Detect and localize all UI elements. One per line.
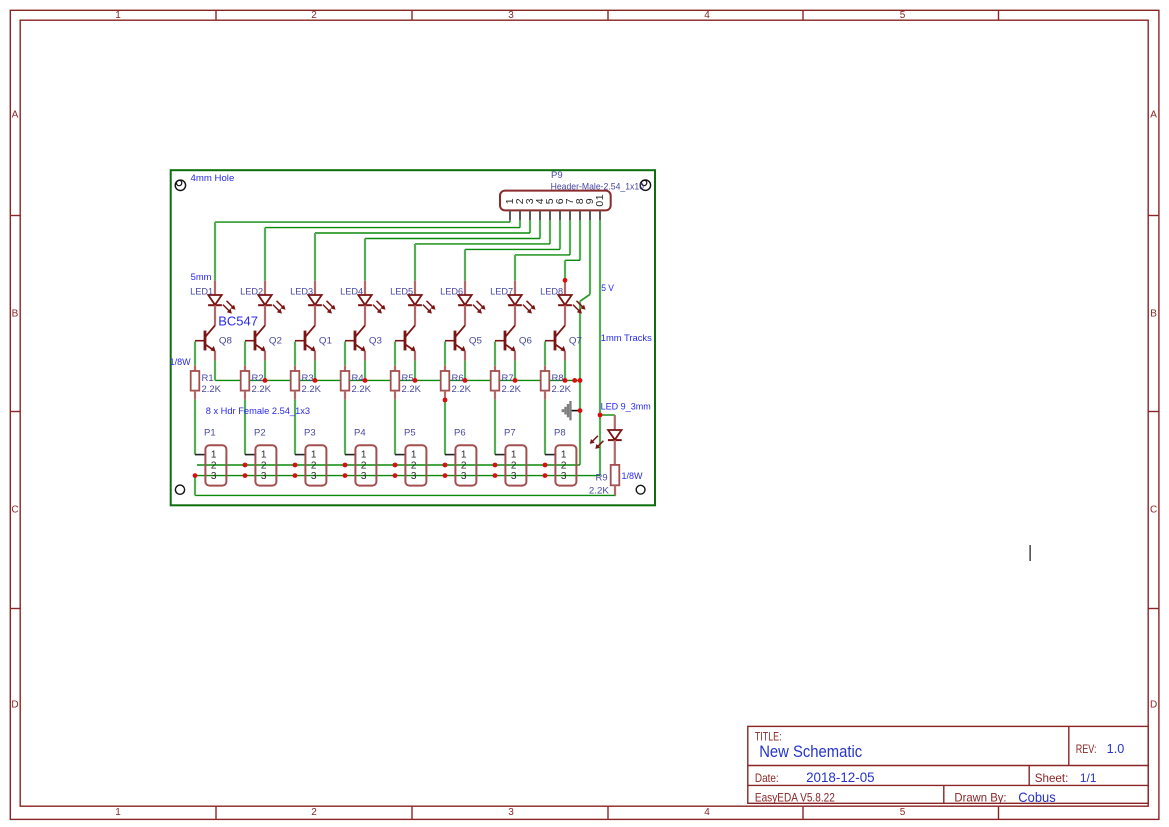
svg-text:B: B [12, 309, 19, 320]
svg-text:1/1: 1/1 [1080, 771, 1097, 785]
svg-text:Q1: Q1 [319, 336, 332, 347]
svg-text:2.2K: 2.2K [352, 384, 372, 395]
svg-text:LED7: LED7 [490, 286, 513, 297]
svg-text:3: 3 [211, 471, 217, 482]
svg-text:P3: P3 [304, 428, 316, 439]
svg-text:Q5: Q5 [469, 336, 482, 347]
svg-text:2: 2 [211, 461, 217, 472]
svg-text:1: 1 [561, 449, 567, 460]
svg-text:3: 3 [511, 471, 517, 482]
svg-text:1: 1 [311, 449, 317, 460]
svg-text:LED1: LED1 [190, 286, 213, 297]
svg-text:3: 3 [461, 471, 467, 482]
svg-text:R4: R4 [352, 373, 364, 384]
svg-text:1: 1 [261, 449, 267, 460]
svg-text:2: 2 [411, 461, 417, 472]
svg-text:D: D [1150, 700, 1157, 711]
svg-text:Drawn By:: Drawn By: [954, 791, 1006, 805]
svg-text:2: 2 [461, 461, 467, 472]
svg-text:R5: R5 [402, 373, 414, 384]
svg-text:Q8: Q8 [219, 336, 232, 347]
svg-text:8 x Hdr Female 2.54_1x3: 8 x Hdr Female 2.54_1x3 [206, 406, 310, 417]
svg-text:1/8W: 1/8W [170, 357, 191, 368]
svg-text:0: 0 [594, 201, 606, 207]
svg-text:Q2: Q2 [269, 336, 282, 347]
svg-text:LED2: LED2 [240, 286, 263, 297]
svg-text:R6: R6 [452, 373, 464, 384]
svg-text:5mm: 5mm [191, 272, 212, 283]
svg-text:3: 3 [561, 471, 567, 482]
svg-text:2.2K: 2.2K [552, 384, 572, 395]
svg-text:1: 1 [115, 10, 121, 21]
svg-text:BC547: BC547 [218, 313, 258, 328]
svg-text:4: 4 [704, 807, 710, 818]
svg-text:1: 1 [115, 807, 121, 818]
svg-text:LED4: LED4 [340, 286, 363, 297]
svg-text:3: 3 [261, 471, 267, 482]
svg-text:R2: R2 [252, 373, 264, 384]
svg-text:3: 3 [508, 807, 514, 818]
svg-text:2.2K: 2.2K [302, 384, 322, 395]
svg-text:Q6: Q6 [519, 336, 532, 347]
svg-text:P2: P2 [254, 428, 266, 439]
svg-text:Header-Male-2.54_1x10: Header-Male-2.54_1x10 [551, 181, 644, 192]
svg-text:LED8: LED8 [540, 286, 563, 297]
svg-text:A: A [1150, 110, 1157, 121]
svg-text:New Schematic: New Schematic [759, 742, 862, 761]
svg-text:R3: R3 [302, 373, 314, 384]
svg-text:P9: P9 [551, 170, 563, 181]
svg-text:2.2K: 2.2K [452, 384, 472, 395]
svg-text:1: 1 [594, 194, 606, 200]
svg-text:REV:: REV: [1076, 742, 1097, 756]
svg-text:LED6: LED6 [440, 286, 463, 297]
svg-text:2018-12-05: 2018-12-05 [806, 770, 875, 785]
svg-text:3: 3 [311, 471, 317, 482]
svg-text:P8: P8 [554, 428, 566, 439]
svg-text:C: C [1150, 505, 1157, 516]
svg-text:LED5: LED5 [390, 286, 413, 297]
svg-text:P7: P7 [504, 428, 516, 439]
svg-text:R8: R8 [552, 373, 564, 384]
svg-text:EasyEDA V5.8.22: EasyEDA V5.8.22 [755, 791, 835, 805]
svg-text:1/8W: 1/8W [622, 471, 643, 482]
svg-text:5 V: 5 V [601, 283, 614, 294]
svg-text:1: 1 [361, 449, 367, 460]
svg-text:LED3: LED3 [290, 286, 313, 297]
svg-text:3: 3 [411, 471, 417, 482]
svg-text:2: 2 [511, 461, 517, 472]
svg-text:P1: P1 [204, 428, 216, 439]
svg-text:Date:: Date: [755, 771, 779, 785]
svg-text:P4: P4 [354, 428, 366, 439]
svg-text:4: 4 [704, 10, 710, 21]
svg-text:B: B [1150, 309, 1157, 320]
svg-text:2: 2 [311, 461, 317, 472]
svg-text:2.2K: 2.2K [402, 384, 422, 395]
svg-text:4mm Hole: 4mm Hole [191, 173, 235, 184]
svg-text:2: 2 [261, 461, 267, 472]
svg-text:2.2K: 2.2K [589, 486, 610, 497]
svg-text:1mm Tracks: 1mm Tracks [601, 333, 652, 344]
svg-text:C: C [11, 505, 18, 516]
svg-text:2: 2 [361, 461, 367, 472]
svg-text:1.0: 1.0 [1107, 742, 1125, 756]
svg-text:1: 1 [511, 449, 517, 460]
svg-text:P6: P6 [454, 428, 466, 439]
svg-text:5: 5 [900, 10, 906, 21]
svg-text:2: 2 [311, 807, 317, 818]
svg-text:5: 5 [900, 807, 906, 818]
svg-text:2.2K: 2.2K [252, 384, 272, 395]
svg-text:Q3: Q3 [369, 336, 382, 347]
svg-text:2: 2 [311, 10, 317, 21]
svg-text:2: 2 [561, 461, 567, 472]
svg-text:Sheet:: Sheet: [1035, 771, 1069, 785]
svg-text:P5: P5 [404, 428, 416, 439]
svg-text:D: D [11, 700, 18, 711]
svg-text:R1: R1 [202, 373, 214, 384]
svg-text:A: A [12, 110, 19, 121]
svg-text:R7: R7 [502, 373, 514, 384]
svg-text:1: 1 [461, 449, 467, 460]
svg-text:2.2K: 2.2K [502, 384, 522, 395]
svg-text:3: 3 [508, 10, 514, 21]
svg-text:Cobus: Cobus [1018, 789, 1055, 805]
svg-text:1: 1 [211, 449, 217, 460]
svg-text:2.2K: 2.2K [202, 384, 222, 395]
svg-text:R9: R9 [596, 473, 608, 484]
svg-text:3: 3 [361, 471, 367, 482]
svg-text:1: 1 [411, 449, 417, 460]
svg-text:Q7: Q7 [569, 336, 582, 347]
svg-text:LED 9_3mm: LED 9_3mm [601, 402, 651, 413]
